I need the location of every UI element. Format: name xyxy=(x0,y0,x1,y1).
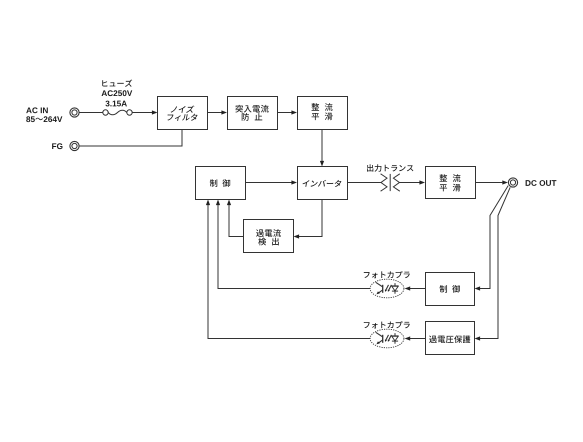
block rectifier smoother 1 xyxy=(298,97,348,130)
wire overvoltage to photocoupler 2 xyxy=(410,338,425,340)
wire control1 to inverter xyxy=(245,182,292,184)
label FG xyxy=(52,143,62,149)
wire inverter down to overcurrent detect xyxy=(299,200,322,237)
label inrush line2 xyxy=(242,113,263,121)
label DC OUT xyxy=(526,180,557,186)
label fuse line1 xyxy=(102,80,132,87)
label control 2 xyxy=(440,285,460,293)
wire AC IN to fuse xyxy=(79,112,103,114)
block inrush current prevention xyxy=(228,97,278,130)
block overcurrent detect xyxy=(244,220,294,253)
block inverter xyxy=(298,167,348,200)
label 85-264V xyxy=(26,116,62,122)
transformer T1 output transformer xyxy=(381,174,387,191)
label fuse line2 AC250V xyxy=(102,90,133,96)
label overvoltage protect xyxy=(429,335,470,343)
wire DC OUT down to control 2 xyxy=(480,186,508,289)
label AC IN xyxy=(26,107,48,113)
wire overcurrent detect to control1 xyxy=(229,205,244,237)
wire inrush to rectifier 1 xyxy=(277,112,292,114)
wire control2 to photocoupler 1 xyxy=(410,288,425,290)
wire inverter to transformer xyxy=(347,182,381,184)
wire rectifier 1 down to inverter xyxy=(321,129,323,161)
label rectifier1 line2 xyxy=(312,112,333,120)
wire transformer to rectifier 2 xyxy=(399,182,419,184)
photocoupler PC2 xyxy=(370,329,404,348)
block noise filter xyxy=(158,97,208,130)
wire noise filter to inrush xyxy=(208,112,222,114)
block rectifier smoother 2 xyxy=(426,167,476,199)
label inrush line1 xyxy=(235,105,268,113)
label photocoupler 1 xyxy=(364,271,410,278)
label inverter xyxy=(303,180,342,187)
terminal DC OUT (double circle) xyxy=(508,178,517,187)
label photocoupler 2 xyxy=(364,321,410,328)
wire FG to noise filter bottom xyxy=(79,129,182,146)
wire photocoupler 1 to control 1 xyxy=(218,205,370,289)
label control 1 xyxy=(210,179,230,187)
wire rectifier 2 to DC OUT xyxy=(475,182,502,184)
label rectifier1 line1 xyxy=(311,103,332,111)
label rectifier2 line1 xyxy=(439,174,460,182)
label noise filter line2 xyxy=(167,114,197,121)
block overvoltage protect xyxy=(426,322,475,355)
terminal AC IN (double circle) xyxy=(70,108,79,117)
fuse F1 (two circles + wave) xyxy=(103,110,108,115)
photocoupler PC1 xyxy=(370,279,404,298)
label overcurrent line1 xyxy=(256,229,281,237)
label output transformer xyxy=(367,164,413,171)
wire DC OUT down to overvoltage protect xyxy=(480,187,510,338)
block control 2 xyxy=(426,273,475,306)
label overcurrent line2 xyxy=(258,238,279,246)
block control 1 xyxy=(196,167,246,200)
label noise filter line1 xyxy=(171,106,195,113)
label rectifier2 line2 xyxy=(440,184,461,192)
label fuse line3 3.15A xyxy=(105,101,126,107)
wire photocoupler 2 to control 1 xyxy=(208,205,370,339)
wire fuse to noise filter xyxy=(132,112,152,114)
terminal FG (double circle) xyxy=(70,141,79,150)
